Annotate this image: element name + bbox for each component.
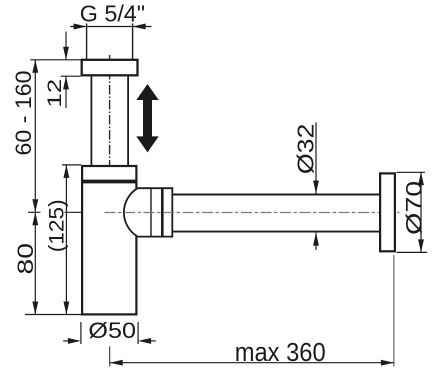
svg-text:12: 12 xyxy=(44,79,66,108)
svg-text:80: 80 xyxy=(13,243,38,275)
svg-text:60 - 160: 60 - 160 xyxy=(11,71,36,156)
svg-text:Ø32: Ø32 xyxy=(293,124,319,175)
svg-text:G 5/4": G 5/4" xyxy=(80,1,145,27)
svg-text:Ø50: Ø50 xyxy=(88,318,136,343)
svg-text:max 360: max 360 xyxy=(235,339,326,367)
svg-text:Ø70: Ø70 xyxy=(402,181,427,235)
svg-text:(125): (125) xyxy=(46,199,69,252)
